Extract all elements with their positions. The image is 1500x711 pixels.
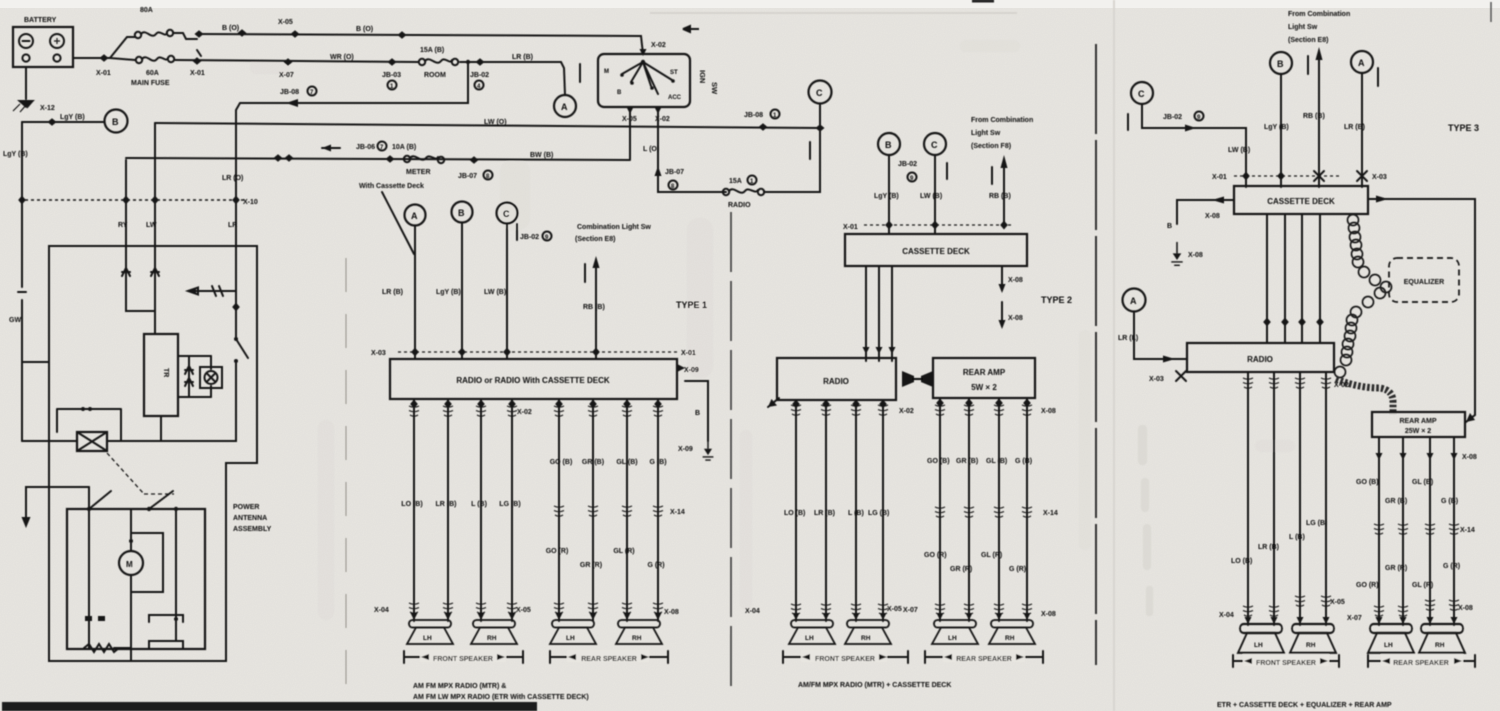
svg-text:LH: LH: [805, 635, 814, 642]
svg-text:GO (R): GO (R): [924, 552, 947, 559]
svg-text:X-02: X-02: [899, 408, 914, 415]
front speaker LH type3: [1238, 624, 1284, 653]
wire LW(O) long horizontal: [155, 123, 820, 128]
svg-text:JB-03: JB-03: [382, 72, 401, 79]
svg-text:X-10: X-10: [243, 199, 258, 206]
relay actuation dashed link: [107, 453, 174, 494]
wire RB(B) to combination light sw: [595, 268, 597, 359]
floating arrow above meter line: [322, 147, 340, 149]
svg-text:MAIN FUSE: MAIN FUSE: [131, 80, 170, 87]
svg-text:C: C: [1138, 89, 1145, 99]
rear speaker LH type1: [550, 620, 596, 644]
wire GW inner link: [22, 361, 49, 363]
svg-text:M: M: [126, 560, 133, 569]
svg-text:JB-02: JB-02: [520, 234, 539, 241]
dimension FRONT SPEAKER type2: [783, 651, 908, 663]
motor capacitor: [131, 533, 163, 592]
svg-text:IGN: IGN: [698, 70, 707, 83]
svg-text:GO (R): GO (R): [1356, 582, 1379, 589]
svg-text:B: B: [695, 410, 700, 417]
svg-text:LR: LR: [228, 222, 237, 229]
svg-text:GL (R): GL (R): [1412, 582, 1433, 589]
svg-text:AM/FM MPX RADIO (MTR) + CASSET: AM/FM MPX RADIO (MTR) + CASSETTE DECK: [798, 682, 951, 689]
connector rear bottom type2: [935, 604, 945, 614]
inline connector on RY: [122, 268, 130, 276]
arrow up on L(O): [655, 166, 662, 178]
connector B(O) diamond: [238, 29, 247, 37]
svg-text:LH: LH: [1384, 642, 1393, 649]
svg-text:GL (B): GL (B): [1412, 479, 1433, 486]
wire LW(B) from C type2: [934, 155, 936, 234]
svg-text:L (B): L (B): [1289, 534, 1305, 541]
battery B1: [13, 27, 73, 67]
inter-unit connector type2: [902, 371, 914, 387]
svg-text:X-03: X-03: [1372, 174, 1387, 181]
svg-text:B: B: [112, 117, 119, 127]
svg-text:X-07: X-07: [1347, 615, 1362, 622]
svg-text:15A (B): 15A (B): [420, 47, 444, 54]
diode branch: [188, 356, 190, 397]
arrow on loop wire: [286, 99, 298, 107]
svg-text:TYPE 3: TYPE 3: [1448, 123, 1479, 133]
svg-text:M: M: [604, 69, 609, 75]
svg-text:X-08: X-08: [1008, 315, 1023, 322]
svg-text:ASSEMBLY: ASSEMBLY: [233, 526, 272, 533]
svg-text:B (O): B (O): [222, 25, 239, 32]
svg-text:ETR + CASSETTE DECK + EQUALI: ETR + CASSETTE DECK + EQUALIZER + REAR A…: [1217, 702, 1392, 709]
svg-text:JB-06: JB-06: [356, 144, 375, 151]
floating arrow near ignition switch: [683, 26, 699, 32]
wire radio fuse to circle C: [764, 104, 820, 192]
svg-text:JB-08: JB-08: [744, 112, 763, 119]
fuse METER: [386, 155, 395, 163]
svg-text:LH: LH: [1254, 642, 1263, 649]
svg-text:FRONT SPEAKER: FRONT SPEAKER: [433, 656, 493, 663]
svg-text:X-08: X-08: [1458, 605, 1473, 612]
svg-text:L (O): L (O): [643, 146, 659, 153]
svg-text:LgY (B): LgY (B): [1264, 124, 1289, 131]
wire GW into relay: [22, 440, 77, 442]
scan black bottom band: [2, 702, 537, 711]
connector circle B type1: [452, 202, 473, 223]
connector circle C (feed): [809, 81, 832, 104]
wire LW vertical: [154, 123, 156, 334]
wire LgY(B) from B: [461, 223, 463, 359]
junction arrows left: [274, 154, 283, 162]
svg-text:TYPE 1: TYPE 1: [676, 300, 707, 310]
svg-text:LgY (B): LgY (B): [3, 151, 28, 158]
equalizer (option): [1389, 258, 1459, 302]
svg-text:X-04: X-04: [745, 608, 760, 615]
svg-text:With Cassette Deck: With Cassette Deck: [359, 183, 424, 190]
svg-text:X-04: X-04: [1219, 612, 1234, 619]
shielded cable equalizer to radio: [1335, 288, 1386, 378]
rear amp type2: [933, 358, 1035, 398]
front speaker wires type2: [796, 400, 883, 621]
svg-text:X-01: X-01: [190, 70, 205, 77]
svg-text:REAR SPEAKER: REAR SPEAKER: [581, 656, 637, 663]
svg-text:EQUALIZER: EQUALIZER: [1404, 279, 1444, 286]
ground battery: [17, 100, 35, 108]
svg-text:A: A: [411, 211, 418, 221]
svg-text:X-08: X-08: [1041, 611, 1056, 618]
wires cassette to radio type3: [1267, 214, 1320, 343]
svg-text:LO (B): LO (B): [1231, 558, 1252, 565]
rear speaker RH type1: [616, 620, 662, 644]
connector circle A (feed): [554, 95, 576, 117]
svg-text:G (B): G (B): [1015, 458, 1032, 465]
svg-text:AM FM LW MPX RADIO (ETR With C: AM FM LW MPX RADIO (ETR With CASSETTE DE…: [413, 694, 589, 701]
tick near C type2: [946, 163, 948, 179]
wire ignition L(O) down to radio fuse: [658, 107, 726, 192]
svg-text:WR (O): WR (O): [330, 54, 354, 61]
wire cassette right to rear amp type3: [1368, 199, 1475, 415]
resistor and breaker bottom: [89, 619, 176, 648]
wire RB(B) up arrow type3: [1318, 60, 1320, 187]
scan faint vertical fold line: [1113, 0, 1115, 711]
svg-text:RH: RH: [1306, 642, 1316, 649]
wire LR vertical to antenna switch: [163, 200, 236, 441]
svg-text:GR (B): GR (B): [582, 459, 604, 466]
svg-text:RADIO: RADIO: [823, 377, 849, 386]
svg-text:G (R): G (R): [1443, 563, 1460, 570]
limit contacts row: [89, 509, 176, 619]
wire B ground exit left type3: [1177, 200, 1234, 224]
wire WR(O) run to circle A: [175, 60, 565, 95]
svg-text:LH: LH: [566, 635, 575, 642]
cassette deck type3: [1234, 186, 1368, 214]
svg-text:X-14: X-14: [1460, 527, 1475, 534]
svg-text:(Section E8): (Section E8): [575, 236, 615, 243]
scan top right corner tick: [1490, 2, 1492, 22]
svg-text:LgY (B): LgY (B): [60, 114, 85, 121]
svg-text:15A: 15A: [729, 178, 742, 185]
svg-text:LH: LH: [423, 635, 432, 642]
svg-text:REAR AMP: REAR AMP: [1399, 418, 1436, 425]
svg-text:LW (O): LW (O): [484, 119, 507, 126]
svg-text:ACC: ACC: [668, 95, 682, 101]
connector X-07: [284, 58, 293, 66]
connector X-08 row type3: [1376, 453, 1383, 460]
svg-text:LgY (B): LgY (B): [874, 193, 899, 200]
svg-text:A: A: [1358, 58, 1365, 68]
timer unit TR: [144, 334, 178, 416]
svg-text:(Section F8): (Section F8): [971, 143, 1011, 150]
svg-text:B: B: [458, 208, 465, 218]
junction node after ROOM fuse: [466, 60, 470, 64]
svg-text:BW (B): BW (B): [530, 152, 553, 159]
rear speaker LH type2: [932, 620, 978, 644]
switch blades (ganged): [87, 507, 91, 511]
svg-text:X-08: X-08: [1008, 277, 1023, 284]
front speaker RH type3: [1290, 624, 1336, 653]
svg-text:X-05: X-05: [887, 606, 902, 613]
svg-text:LR (B): LR (B): [436, 501, 457, 508]
connector circle B type2: [878, 133, 900, 155]
svg-text:GL (B): GL (B): [616, 459, 637, 466]
power antenna assembly outline: [49, 246, 257, 661]
svg-text:LG (B): LG (B): [868, 510, 889, 517]
connector X-04/X-05 type3: [1243, 606, 1253, 616]
front speaker LH type2: [789, 620, 835, 644]
front speaker RH type1: [471, 620, 517, 644]
front speaker wires type1: [414, 399, 512, 621]
connector row X-03/X-01 dashed: [398, 351, 678, 353]
svg-text:G (B): G (B): [649, 459, 666, 466]
rear speaker LH type3: [1368, 624, 1414, 653]
connector row X-02 type3: [1243, 378, 1253, 388]
tick near C type3: [1127, 114, 1129, 130]
connector JB-02 diamond: [476, 58, 485, 66]
svg-text:GW: GW: [9, 317, 21, 324]
svg-text:GR (R): GR (R): [950, 566, 972, 573]
junction diamond on LR: [232, 303, 240, 312]
wire A to radio type3: [1134, 312, 1187, 359]
svg-text:RH: RH: [1435, 642, 1445, 649]
wire LgY(B) from B type3: [1280, 74, 1282, 187]
wire TR to lamp branch top: [178, 356, 211, 397]
junction arrow JB-03: [388, 58, 397, 66]
wire BW(B) meter line: [126, 158, 630, 160]
pins X-05 X-02 below box: [627, 107, 634, 114]
scan faint horizontal line: [650, 12, 1017, 14]
svg-text:X-14: X-14: [670, 509, 685, 516]
tick near circle C feed: [809, 142, 811, 159]
svg-text:X-09: X-09: [678, 446, 693, 453]
svg-text:LO (B): LO (B): [401, 501, 422, 508]
svg-text:A: A: [1130, 296, 1137, 306]
connector row X-08 type2: [936, 399, 944, 408]
svg-text:RADIO or RADIO With CASSETTE D: RADIO or RADIO With CASSETTE DECK: [456, 376, 609, 385]
svg-text:REAR SPEAKER: REAR SPEAKER: [956, 656, 1012, 663]
svg-text:X-05: X-05: [516, 607, 531, 614]
tick and JB-02 label: [516, 224, 518, 240]
radio unit type3: [1187, 343, 1334, 372]
rear amp type3: [1372, 412, 1465, 437]
svg-text:RH: RH: [487, 635, 497, 642]
motor M: [119, 551, 143, 575]
battery ground wire: [25, 67, 27, 99]
wires cassette to radio type2: [866, 266, 892, 361]
svg-text:X-01: X-01: [843, 224, 858, 231]
svg-text:X-08: X-08: [664, 609, 679, 616]
connector circle C type3: [1131, 82, 1153, 104]
wire GW left vertical: [21, 122, 23, 441]
rear speaker RH type3: [1419, 624, 1465, 653]
svg-text:RH: RH: [1005, 635, 1015, 642]
svg-text:FRONT SPEAKER: FRONT SPEAKER: [1256, 660, 1316, 667]
svg-text:Combination Light Sw: Combination Light Sw: [577, 224, 651, 231]
svg-text:B (O): B (O): [356, 26, 373, 33]
shielded cable cassette to equalizer: [1348, 215, 1392, 293]
svg-text:X-03: X-03: [1149, 376, 1164, 383]
svg-text:GL (B): GL (B): [986, 458, 1007, 465]
wire battery to fuses: [73, 37, 135, 60]
svg-text:X-01: X-01: [681, 350, 696, 357]
connector circle C type1: [497, 203, 518, 224]
svg-text:LR (B): LR (B): [512, 54, 533, 61]
svg-text:JB-07: JB-07: [458, 173, 477, 180]
stub arrow into LR wire: [188, 288, 236, 295]
svg-text:GO (R): GO (R): [546, 548, 569, 555]
svg-text:LgY (B): LgY (B): [436, 289, 461, 296]
svg-text:X-02: X-02: [517, 409, 532, 416]
svg-text:LR (B): LR (B): [814, 510, 835, 517]
connector X-14 row type1: [554, 506, 564, 516]
svg-text:G (B): G (B): [1441, 498, 1458, 505]
svg-text:JB-07: JB-07: [665, 169, 684, 176]
svg-text:LR (B): LR (B): [1258, 544, 1279, 551]
dimension FRONT SPEAKER type1: [404, 651, 523, 663]
svg-text:AM FM MPX RADIO (MTR) &: AM FM MPX RADIO (MTR) &: [413, 683, 506, 690]
svg-text:TYPE 2: TYPE 2: [1041, 295, 1072, 305]
svg-text:RB (B): RB (B): [1303, 113, 1325, 120]
connector circle A lower type3: [1123, 289, 1146, 312]
wire LgY(B) from B type2: [888, 155, 890, 234]
svg-text:B: B: [885, 140, 892, 150]
svg-text:ST: ST: [670, 70, 678, 76]
svg-text:LR (B): LR (B): [382, 289, 403, 296]
svg-text:RH: RH: [861, 635, 871, 642]
scan page top edge mark: [972, 0, 994, 3]
svg-text:(Section E8): (Section E8): [1288, 37, 1328, 44]
svg-text:CASSETTE DECK: CASSETTE DECK: [902, 247, 970, 256]
connector circle A type3: [1351, 51, 1373, 73]
connector circle B type3: [1270, 52, 1292, 74]
shielded cable radio to rear amp: [1336, 379, 1393, 414]
fuse 60A MAIN FUSE: [136, 57, 142, 63]
svg-text:C: C: [931, 140, 938, 150]
pin X-08 stubs type2: [1001, 266, 1003, 284]
front speaker LH type1: [407, 620, 453, 644]
section divider type2/type3: [1095, 44, 1097, 665]
svg-text:G (R): G (R): [1009, 566, 1026, 573]
svg-text:JB-02: JB-02: [898, 161, 917, 168]
svg-text:25W × 2: 25W × 2: [1405, 428, 1431, 435]
svg-text:X-04: X-04: [374, 607, 389, 614]
svg-text:RB (B): RB (B): [989, 193, 1011, 200]
svg-text:GR (B): GR (B): [956, 458, 978, 465]
connector X-01 arrow: [100, 54, 109, 62]
svg-text:GL (R): GL (R): [981, 552, 1002, 559]
front speaker wires type3: [1248, 372, 1326, 625]
svg-text:RH: RH: [632, 635, 642, 642]
svg-text:CASSETTE DECK: CASSETTE DECK: [1267, 197, 1335, 206]
svg-text:LW (B): LW (B): [920, 193, 942, 200]
connector circle A type1: [405, 205, 426, 226]
svg-text:LH: LH: [948, 635, 957, 642]
svg-text:LG (B): LG (B): [499, 501, 520, 508]
relay coil loop wire: [57, 409, 121, 441]
wire LW(B) from C: [506, 224, 508, 359]
dimension REAR SPEAKER type2: [925, 651, 1043, 663]
radio unit type1: [390, 359, 677, 399]
rear speaker RH type2: [989, 620, 1035, 644]
svg-text:X-08: X-08: [1041, 408, 1056, 415]
svg-text:X-07: X-07: [279, 72, 294, 79]
tick near A type3: [1377, 68, 1379, 86]
wire B(O) top run to ignition switch: [197, 34, 643, 54]
svg-text:GO (B): GO (B): [1356, 479, 1379, 486]
svg-text:G (R): G (R): [647, 562, 664, 569]
svg-text:POWER: POWER: [233, 504, 259, 511]
svg-text:A: A: [561, 102, 568, 112]
connector rear bottom type1: [554, 603, 564, 613]
loop wire JB-08 from node down-left: [236, 62, 468, 200]
wire B ground type1: [685, 381, 708, 441]
svg-text:GR (R): GR (R): [580, 562, 602, 569]
svg-text:X-08: X-08: [1462, 454, 1477, 461]
rear amp wires type2: [940, 398, 1027, 621]
svg-text:From Combination: From Combination: [971, 117, 1033, 124]
radio unit type2: [777, 358, 896, 400]
wire TR bottom to relay rail: [160, 416, 162, 441]
svg-text:From Combination: From Combination: [1288, 11, 1350, 18]
svg-text:C: C: [816, 88, 823, 98]
scan smudge marks: [250, 40, 1295, 620]
svg-text:TR: TR: [162, 368, 169, 377]
svg-text:L (B): L (B): [471, 501, 487, 508]
svg-text:FRONT SPEAKER: FRONT SPEAKER: [815, 656, 875, 663]
svg-text:Light Sw: Light Sw: [971, 130, 1001, 137]
svg-text:ANTENNA: ANTENNA: [233, 515, 267, 522]
wire ignition to meter line: [629, 107, 631, 159]
svg-text:REAR SPEAKER: REAR SPEAKER: [1393, 660, 1449, 667]
connector row X-10 (dashed): [19, 199, 244, 201]
front speaker RH type2: [845, 620, 891, 644]
dimension REAR SPEAKER type1: [550, 651, 668, 663]
connector row X-02 type2: [792, 400, 800, 409]
node circle C feed junction: [816, 124, 825, 132]
wire LW(B) from C type3: [1142, 104, 1246, 187]
svg-text:X-08: X-08: [1205, 213, 1220, 220]
svg-text:SW: SW: [710, 82, 719, 95]
svg-text:60A: 60A: [146, 70, 159, 77]
dimension FRONT SPEAKER type3: [1233, 655, 1339, 667]
fuse 15A RADIO: [723, 189, 729, 195]
wire RY vertical: [126, 160, 155, 311]
svg-text:LR (O): LR (O): [222, 175, 243, 182]
svg-text:X-12: X-12: [40, 105, 55, 112]
switch contact (antenna relay switch): [234, 337, 238, 341]
arrow at radio corner type2: [768, 398, 779, 407]
svg-text:X-01: X-01: [96, 70, 111, 77]
svg-text:B: B: [1277, 59, 1284, 69]
wire LR(B) from A: [414, 226, 416, 359]
svg-text:ROOM: ROOM: [424, 72, 446, 79]
svg-text:METER: METER: [406, 169, 431, 176]
svg-text:B: B: [1167, 223, 1172, 230]
svg-text:GR (R): GR (R): [1385, 565, 1407, 572]
svg-text:L (B): L (B): [848, 510, 864, 517]
svg-text:GL (R): GL (R): [613, 548, 634, 555]
svg-text:BATTERY: BATTERY: [24, 17, 57, 24]
svg-text:LR (L): LR (L): [1118, 335, 1138, 342]
connector circle C type2: [924, 133, 946, 155]
svg-text:X-07: X-07: [903, 607, 918, 614]
svg-text:RADIO: RADIO: [1247, 355, 1273, 364]
section divider type1/type2: [730, 212, 732, 695]
rear speaker wires type1: [559, 399, 658, 621]
svg-text:REAR AMP: REAR AMP: [963, 368, 1006, 377]
wire LgY(B) to circle B: [22, 121, 104, 123]
junction JB-08 on LW line: [759, 123, 768, 131]
svg-text:LO (B): LO (B): [784, 510, 805, 517]
rear amp wires type3: [1379, 437, 1454, 625]
svg-text:C: C: [503, 209, 510, 219]
antenna mast arrow: [26, 487, 89, 519]
connector X-04 X-05 front type1: [409, 603, 419, 613]
